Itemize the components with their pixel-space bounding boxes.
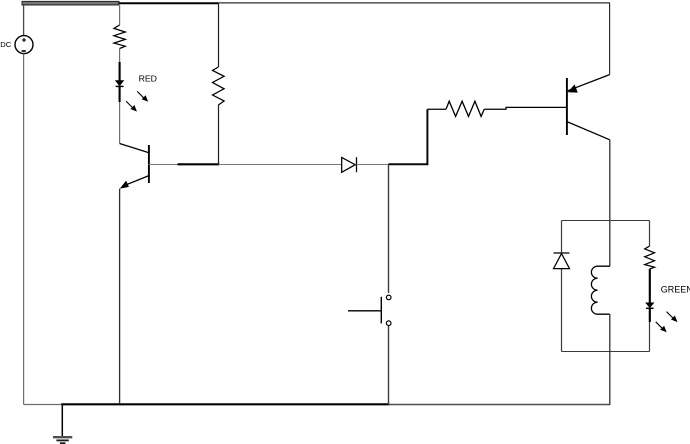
svg-text:DC: DC (0, 40, 11, 49)
LED GREEN light arrows (656, 312, 677, 332)
wire: base wire thick black segment (178, 163, 220, 165)
svg-text:RED: RED (139, 74, 157, 84)
wire: R1 to LED (gray then thick) (119, 49, 121, 64)
transistor Q2 (PNP, faces right) (567, 75, 610, 140)
wire: R4 to LED thick black (649, 269, 651, 303)
LED RED light arrows (126, 91, 147, 110)
wire: R3 right lead to Q2 base (484, 107, 567, 109)
wire: bottom rail gray segment V1 to ground node (24, 404, 62, 406)
diode D3 flyback (points up) (554, 253, 570, 269)
wire: flyback diode branch verticals (561, 221, 563, 352)
wire: thick L from switch node up to R3 (388, 109, 427, 164)
wire: R3 left lead (427, 108, 446, 110)
wire: Q1 emitter to bottom rail (119, 189, 121, 405)
wire: bottom rail segment switch to relay (388, 404, 610, 406)
wire: LED to Q1 collector (119, 102, 121, 144)
LED D4 GREEN (646, 303, 654, 322)
wire: coil bottom vertical down through relay to bottom rail (609, 314, 611, 404)
inductor L1 relay coil (591, 266, 609, 314)
wire: bottom rail thick black segment ground node to switch (61, 403, 389, 405)
LED D2 RED (116, 81, 124, 102)
wire: right rail vertical from top corner to Q2 emitter (609, 3, 611, 75)
relay K1 bottom wire (562, 351, 650, 353)
wire: D1 cathode to switch node (357, 164, 390, 166)
wire: drop from bus to R1 (119, 6, 121, 26)
wire: Q2 collector vertical down to relay (609, 140, 611, 266)
diode D1 (342, 157, 357, 172)
wire: switch top vertical (388, 164, 390, 293)
resistor R4 (645, 246, 655, 269)
wire: base wire gray to diode D1 (218, 164, 341, 166)
wire: top rail thin black (R2 top to right corner) (119, 2, 219, 4)
wire: switch bottom vertical to bottom rail (388, 326, 390, 404)
resistor R2 (with leads from top rail to base wire) (213, 3, 225, 165)
switch SW1 (pushbutton) (348, 295, 391, 325)
resistor R1 (114, 25, 125, 49)
DC source V1 (0, 6, 33, 54)
svg-text:GREEN: GREEN (661, 285, 690, 295)
ground (53, 405, 72, 444)
wire: relay right branch top lead (649, 221, 651, 247)
relay K1 top wire (562, 220, 650, 222)
transistor Q1 (NPN, faces left) (120, 144, 149, 189)
wire: LED to relay bottom (649, 322, 651, 352)
wire: thick positive supply bus (top-left) (22, 1, 120, 6)
resistor R3 (446, 101, 484, 116)
wire: Q1 base wire gray segment (149, 164, 178, 166)
wire: left rail vertical from V1 to bottom (23, 54, 25, 405)
